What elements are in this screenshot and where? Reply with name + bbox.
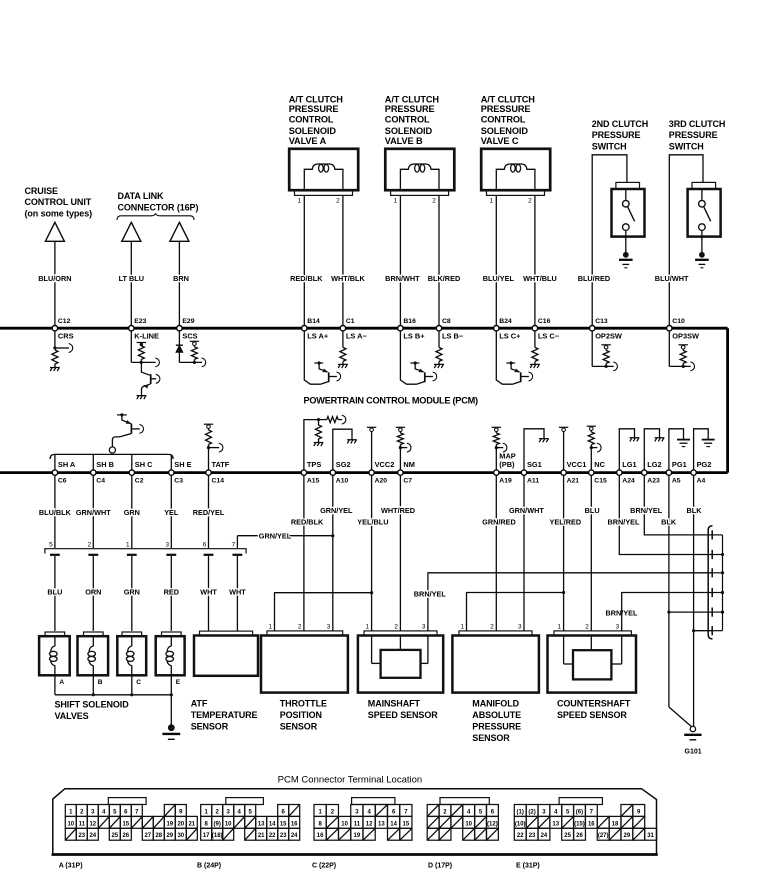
svg-text:3: 3 [616,623,620,630]
node C10 terminal on bus 1 [667,326,672,331]
signal label OP3SW [672,332,699,341]
pin label C1 [346,318,355,325]
svg-text:LT BLU: LT BLU [119,274,144,283]
svg-text:16: 16 [291,821,298,827]
resistor OP switch pull-up [680,350,686,368]
svg-text:2ND CLUTCH: 2ND CLUTCH [592,119,649,129]
2ND CLUTCH pressure switch label [592,119,649,152]
wire BLK/RED valve B pin2 [438,195,440,325]
svg-text:VCC2: VCC2 [375,460,395,469]
signal label TATF [212,460,230,469]
svg-text:SOLENOID: SOLENOID [289,126,337,136]
label GRN/RED [482,517,516,526]
svg-text:SH A: SH A [58,460,76,469]
PCM connector panel outline [52,789,658,855]
TPS input circuit wire [304,415,346,470]
wire BLU/YEL valve C pin1 [495,195,497,325]
connector label A (31P) [59,863,83,870]
svg-text:C15: C15 [594,478,607,485]
svg-text:A/T CLUTCH: A/T CLUTCH [385,94,440,104]
resistor TPS pull-down [316,420,322,443]
svg-text:CRUISE: CRUISE [25,186,59,196]
joint connector common link [722,535,724,631]
label BRN/YEL LG2 [630,506,663,515]
signal label SG1 [527,460,542,469]
svg-text:B16: B16 [403,318,416,325]
svg-text:THROTTLE: THROTTLE [280,698,327,708]
transistor LS C+ driver [496,331,532,384]
svg-text:27: 27 [144,833,151,839]
LG1 ground wire [619,429,634,470]
label RED/YEL [193,508,225,517]
countershaft sensor pin 1 [558,623,562,630]
data link triangle 1 [122,222,141,241]
node C13 terminal on bus 1 [590,326,595,331]
svg-text:C7: C7 [403,478,412,485]
svg-text:C2: C2 [135,478,144,485]
solenoid valve B body [385,149,454,196]
mainshaft sensor pin 2 [394,623,398,630]
svg-text:23: 23 [78,833,85,839]
label BRN/YEL mainshaft [414,590,447,599]
svg-text:A20: A20 [375,478,388,485]
label YEL/BLU [357,517,388,526]
signal label VCC2 [375,460,395,469]
svg-text:10: 10 [465,821,472,827]
label ORN [85,588,101,597]
label WHT/BLU [523,274,557,283]
valve B pin 1 [394,198,398,205]
svg-text:2: 2 [585,623,589,630]
svg-text:PRESSURE: PRESSURE [669,130,718,140]
signal label LS B+ [403,332,425,341]
node SH C terminal on bus 2 [129,470,134,475]
A/T clutch pressure control solenoid valve A label [289,94,344,146]
svg-text:SG2: SG2 [336,460,351,469]
svg-text:WHT/BLK: WHT/BLK [331,274,365,283]
signal label SG2 [336,460,351,469]
label WHT [229,588,246,597]
svg-text:B: B [98,679,103,686]
signal label LG2 [647,460,661,469]
svg-text:GRN/YEL: GRN/YEL [259,532,292,541]
connector label E (31P) [516,863,540,870]
wire GRN/WHT from bus 2 [92,475,94,548]
ground SG1 [539,439,549,443]
svg-text:PCM Connector Terminal Locatio: PCM Connector Terminal Location [278,775,423,785]
wire WHT/BLK valve A pin2 [342,195,344,325]
svg-text:TPS: TPS [307,460,321,469]
PG2 ground wire [694,429,709,470]
svg-text:(10): (10) [515,821,526,827]
resistor LS B&#8722; sense [436,331,442,365]
NM input wire [400,443,411,470]
svg-text:PRESSURE: PRESSURE [472,721,521,731]
pin 7 terminal bar [233,554,243,556]
pin label A4 [697,478,706,485]
svg-text:SPEED SENSOR: SPEED SENSOR [557,710,627,720]
signal label LG1 [622,460,636,469]
connector D pin grid [427,805,498,841]
svg-text:BLK: BLK [687,506,703,515]
svg-text:26: 26 [576,833,583,839]
svg-text:3RD CLUTCH: 3RD CLUTCH [669,119,726,129]
wire BLK PG1 [667,475,670,707]
label RED/BLK [291,517,324,526]
pin number 7 [232,541,236,548]
label BLK PG1 [661,517,677,526]
pin label C12 [58,318,71,325]
svg-text:2: 2 [432,198,436,205]
svg-text:28: 28 [155,833,162,839]
node SH A terminal on bus 2 [52,470,57,475]
svg-text:NM: NM [403,460,415,469]
svg-text:CONTROL UNIT: CONTROL UNIT [25,197,92,207]
svg-text:A10: A10 [336,478,349,485]
svg-text:2: 2 [88,541,92,548]
svg-text:BRN/YEL: BRN/YEL [607,517,640,526]
svg-text:RED/BLK: RED/BLK [291,517,324,526]
svg-text:12: 12 [89,821,96,827]
svg-text:21: 21 [188,821,195,827]
svg-text:E29: E29 [182,318,194,325]
pin label C4 [96,478,105,485]
svg-text:2: 2 [298,623,302,630]
svg-text:PRESSURE: PRESSURE [481,104,531,114]
label WHT/BLK [331,274,365,283]
node TATF terminal on bus 2 [206,470,211,475]
signal label VCC1 [567,460,587,469]
connector label D (17P) [428,863,452,870]
data link connector label [118,191,199,213]
pin number 2 [88,541,92,548]
svg-text:BLU/ORN: BLU/ORN [38,274,71,283]
pin label B24 [499,318,512,325]
power rail OP switch pull-up [601,345,610,351]
label RED [164,588,179,597]
svg-text:7: 7 [232,541,236,548]
svg-text:SH C: SH C [135,460,153,469]
pin label A19 [499,478,512,485]
svg-text:GRN: GRN [124,508,140,517]
wire GRN to solenoid [131,556,133,631]
svg-text:BLU/WHT: BLU/WHT [655,274,689,283]
svg-text:VALVE C: VALVE C [481,136,519,146]
pin 1 terminal bar [127,554,137,556]
signal label SH E [174,460,191,469]
wire BRN/WHT valve B pin1 [399,195,401,325]
svg-text:2: 2 [394,623,398,630]
svg-text:15: 15 [122,821,129,827]
shift solenoid valve B [78,632,109,675]
pin label C10 [672,318,685,325]
ground K-LINE driver [137,396,147,400]
svg-text:13: 13 [552,821,559,827]
svg-text:20: 20 [177,821,184,827]
svg-text:BRN/YEL: BRN/YEL [630,506,663,515]
shift solenoid valve A [39,632,70,675]
svg-text:SH E: SH E [174,460,191,469]
svg-text:LS A−: LS A− [346,332,368,341]
2ND CLUTCH switch ground [619,237,633,268]
signal label SH C [135,460,153,469]
signal label LS B&#8722; [442,332,464,341]
PCM connector terminal location title [278,775,423,785]
shift solenoid common return wire [55,675,173,725]
label GRN [124,508,140,517]
shift solenoid valve C [117,632,146,675]
svg-text:COUNTERSHAFT: COUNTERSHAFT [557,698,631,708]
diode SCS [176,345,183,352]
svg-text:3: 3 [422,623,426,630]
pin label B14 [307,318,320,325]
solenoid valve C body [481,149,550,196]
signal label SH A [58,460,76,469]
svg-text:MAINSHAFT: MAINSHAFT [368,698,421,708]
wire BLU/RED from switch to PCM [592,155,627,326]
svg-text:5: 5 [49,541,53,548]
svg-text:14: 14 [390,821,397,827]
ground LS C&#8722; [530,364,540,368]
shift harness connector rail [45,549,246,554]
pin label C14 [212,478,225,485]
node PG2 terminal on bus 2 [691,470,696,475]
wire BLU/WHT from switch to PCM [669,155,703,326]
svg-text:E23: E23 [134,318,146,325]
label G101 [685,749,702,756]
power rail TATF pull-up [204,424,213,430]
wire countershaft pin 3 to joint connector pin 4 [622,593,713,631]
svg-text:1: 1 [366,623,370,630]
svg-text:SOLENOID: SOLENOID [481,126,529,136]
svg-text:CRS: CRS [58,332,74,341]
label WHT/RED [381,506,415,515]
signal label PG1 [672,460,687,469]
PG1 ground wire [669,429,684,470]
svg-text:25: 25 [564,833,571,839]
pin label A20 [375,478,388,485]
solenoid label A [59,679,64,686]
signal label OP2SW [595,332,622,341]
node PG1 terminal on bus 2 [666,470,671,475]
svg-text:29: 29 [624,833,631,839]
connector label C (22P) [312,863,336,870]
pin label A5 [672,478,681,485]
pin label C15 [594,478,607,485]
shift solenoid valve E [156,632,185,675]
MAP input wire [496,443,507,470]
svg-text:A19: A19 [499,478,512,485]
svg-text:2: 2 [490,623,494,630]
transistor LS A+ driver [304,331,340,384]
svg-text:A15: A15 [307,478,320,485]
pin label C13 [595,318,608,325]
svg-text:YEL/BLU: YEL/BLU [357,517,388,526]
power rail VCC1 [559,427,568,470]
pin label B16 [403,318,416,325]
ground LG2 [655,438,665,442]
valve A pin 2 [336,198,340,205]
valve B pin 2 [432,198,436,205]
svg-text:NC: NC [594,460,605,469]
wire YEL/BLU VCC2 [370,475,373,631]
pin 6 terminal bar [204,554,214,556]
svg-text:C10: C10 [672,318,685,325]
svg-text:SHIFT SOLENOID: SHIFT SOLENOID [55,700,130,710]
svg-text:BLK: BLK [661,517,677,526]
manifold absolute pressure sensor label [472,698,521,743]
svg-text:C6: C6 [58,478,67,485]
svg-text:31: 31 [647,833,654,839]
svg-text:3: 3 [518,623,522,630]
svg-text:C (22P): C (22P) [312,863,336,870]
svg-text:24: 24 [541,833,548,839]
svg-text:12: 12 [366,821,373,827]
svg-text:A/T CLUTCH: A/T CLUTCH [289,94,344,104]
wire BRN/YEL LG2 to joint connector pin 1 [644,475,712,535]
svg-text:29: 29 [166,833,173,839]
label YEL/RED [549,517,581,526]
svg-text:WHT/RED: WHT/RED [381,506,415,515]
wire YEL from bus 2 [170,475,172,548]
svg-text:E (31P): E (31P) [516,863,540,870]
svg-text:23: 23 [529,833,536,839]
svg-text:16: 16 [588,821,595,827]
svg-text:A23: A23 [647,478,660,485]
svg-text:SG1: SG1 [527,460,542,469]
power rail OP switch pull-up [679,345,688,351]
label BRN/YEL countershaft [605,609,638,618]
svg-text:A: A [59,679,64,686]
svg-text:A5: A5 [672,478,681,485]
svg-text:C1: C1 [346,318,355,325]
pin label C2 [135,478,144,485]
wire RED/YEL from bus 2 [208,475,210,548]
svg-text:TATF: TATF [212,460,230,469]
ground G101 [684,726,701,740]
ATF temperature sensor label [191,698,258,731]
node B24 terminal on bus 1 [494,326,499,331]
label BLU/ORN [38,274,71,283]
svg-text:PRESSURE: PRESSURE [385,104,435,114]
svg-text:LS C−: LS C− [538,332,560,341]
svg-text:A (31P): A (31P) [59,863,83,870]
svg-text:BLU/RED: BLU/RED [578,274,610,283]
svg-text:LS B−: LS B− [442,332,464,341]
joint connector pin 3 [712,568,724,577]
ground CRS [50,368,60,372]
svg-text:RED/BLK: RED/BLK [290,274,323,283]
A/T clutch pressure control solenoid valve B label [385,94,440,146]
wire GRN/RED MAP signal [495,475,497,631]
connector E tab [559,798,602,805]
svg-text:(18): (18) [212,833,223,839]
node SH E terminal on bus 2 [169,470,174,475]
wire WHT/RED NM [399,475,401,631]
label BRN/YEL LG1 [607,517,640,526]
resistor OP switch pull-up [603,350,609,368]
A/T clutch pressure control solenoid valve C label [481,94,536,146]
node C12 terminal on bus 1 [52,326,57,331]
svg-text:(on some types): (on some types) [25,209,93,219]
label BLU/WHT [655,274,689,283]
node B16 terminal on bus 1 [398,326,403,331]
node B14 terminal on bus 1 [302,326,307,331]
pin label A21 [567,478,580,485]
svg-text:B14: B14 [307,318,320,325]
node SG2 terminal on bus 2 [330,470,335,475]
wire BLU to solenoid [54,556,56,631]
svg-text:SPEED SENSOR: SPEED SENSOR [368,710,438,720]
SG2 ground wire [333,429,352,470]
svg-text:OP3SW: OP3SW [672,332,699,341]
node E23 terminal on bus 1 [129,326,134,331]
pin label C16 [538,318,551,325]
label BRN [173,274,189,283]
pin number 6 [203,541,207,548]
svg-text:15: 15 [280,821,287,827]
signal label LS A&#8722; [346,332,368,341]
pin label A11 [527,478,539,485]
svg-text:LS B+: LS B+ [403,332,425,341]
MAP sensor pin 3 [518,623,522,630]
label GRN/WHT [76,508,111,517]
svg-text:SENSOR: SENSOR [191,721,229,731]
solenoid valve A body [289,149,358,196]
svg-text:ABSOLUTE: ABSOLUTE [472,710,521,720]
node C8 terminal on bus 1 [436,326,441,331]
pin label A24 [622,478,635,485]
pin label A15 [307,478,320,485]
solenoid label B [98,679,103,686]
joint connector body [708,526,712,639]
node TPS terminal on bus 2 [301,470,306,475]
3RD CLUTCH switch ground [695,237,709,268]
wire LT BLU to E23 [130,241,132,325]
TPS pin 1 [268,623,272,630]
svg-text:2: 2 [336,198,340,205]
svg-text:24: 24 [89,833,96,839]
joint connector pin 5 [712,608,724,617]
svg-text:1: 1 [394,198,398,205]
svg-text:SENSOR: SENSOR [280,721,318,731]
svg-text:A24: A24 [622,478,635,485]
ground PG2 chassis [702,440,715,447]
svg-text:BRN: BRN [173,274,189,283]
svg-text:15: 15 [403,821,410,827]
svg-text:GRN: GRN [124,588,140,597]
svg-text:SOLENOID: SOLENOID [385,126,433,136]
ground PG1 chassis [677,440,690,447]
svg-text:C4: C4 [96,478,105,485]
label GRN [124,588,140,597]
svg-text:RED/YEL: RED/YEL [193,508,225,517]
wire BLK PG2 [692,475,695,727]
3RD CLUTCH pressure switch label [669,119,726,152]
transistor shift solenoid driver [112,413,143,447]
svg-text:BLU/BLK: BLU/BLK [39,508,72,517]
svg-text:1: 1 [126,541,130,548]
svg-text:13: 13 [258,821,265,827]
svg-text:GRN/YEL: GRN/YEL [320,506,353,515]
countershaft speed sensor [548,631,637,693]
svg-text:CONTROL: CONTROL [481,114,526,124]
svg-text:14: 14 [269,821,276,827]
node E29 terminal on bus 1 [177,326,182,331]
joint connector pin 6 [712,626,722,635]
svg-text:D (17P): D (17P) [428,863,452,870]
wire RED to solenoid [170,556,172,631]
